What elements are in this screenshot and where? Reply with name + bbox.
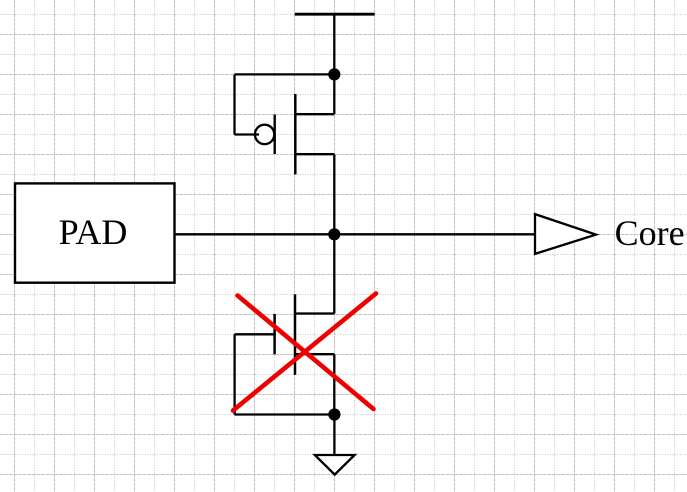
wire PMOS drain to pad node (333, 154, 335, 234)
wire gate-tie bottom (235, 413, 335, 415)
wire NMOS source to ground node (333, 354, 335, 414)
ground (315, 455, 355, 475)
wire NMOS drain to pad node (333, 234, 335, 313)
wire PAD to buffer (175, 233, 536, 235)
wire ground stem (333, 415, 335, 455)
junction node ground (328, 408, 340, 420)
junction node supply/gate (328, 68, 340, 80)
wire supply stem (333, 14, 335, 74)
deletion cross (red X) (233, 294, 376, 411)
junction node pad net (328, 228, 340, 240)
transistor NMOS (crossed out) (235, 294, 335, 414)
wire PMOS source to supply node (333, 74, 335, 114)
svg-text:PAD: PAD (59, 212, 128, 252)
label PAD (59, 212, 128, 252)
wire gate-tie top (235, 73, 335, 75)
svg-text:Core: Core (615, 213, 685, 253)
power rail (supply bar) (295, 13, 375, 16)
PAD block (15, 183, 175, 282)
buffer to core (535, 214, 596, 254)
label Core (615, 213, 685, 253)
transistor PMOS pull-up (235, 74, 335, 174)
